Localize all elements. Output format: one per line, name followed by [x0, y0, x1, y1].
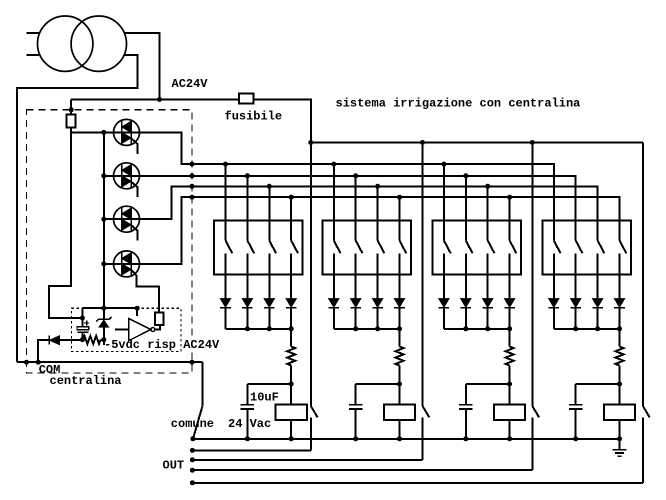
- capacitor C1 top plate: [77, 327, 89, 330]
- wire - block 4 diode 3 lower lead: [597, 308, 599, 329]
- node - psu rail end: [135, 306, 140, 311]
- node - zener bottom junction: [101, 337, 106, 342]
- wire - bus to triac U3 input: [104, 218, 114, 220]
- wire - block 4 cap lower lead: [575, 409, 577, 439]
- wire - block 4 diode 1 lower lead: [553, 308, 555, 329]
- diode D1 (to COM): [38, 340, 49, 362]
- wire - block 4 column 3 upper: [597, 186, 599, 240]
- wire - block 1 cap lower lead: [246, 409, 248, 439]
- resistor R2 (psu): [83, 336, 101, 344]
- wire - block 1 column 1 to diode: [225, 253, 227, 298]
- wire - block 3 column 4 to diode: [509, 253, 511, 298]
- diode D10 (block 3): [439, 299, 450, 308]
- svg-text:24 Vac: 24 Vac: [228, 417, 271, 431]
- transformer TR1 primary winding: [37, 16, 92, 71]
- svg-text:OUT: OUT: [163, 459, 185, 473]
- node - COM terminal left (centralina box): [24, 360, 29, 365]
- wire - block 2 diode 2 lower lead: [355, 308, 357, 329]
- wire - cap bottom lead: [81, 332, 83, 339]
- wire - block 2 relay top link: [356, 383, 400, 385]
- wire - OUT line 1: [192, 449, 310, 451]
- wire - block 4 relay lower lead: [619, 420, 621, 439]
- diode D6 (block 2): [329, 299, 340, 308]
- wire - block 1 column 1 upper: [225, 164, 227, 240]
- wire - block 4 column 2 upper: [575, 176, 577, 241]
- zener diode DZ1: [103, 308, 105, 319]
- node - block 3 relay on comune line: [507, 436, 512, 441]
- node - COM terminal right (centralina box): [190, 360, 195, 365]
- node - block 2 diode common junction 2: [375, 326, 380, 331]
- wire - block 2 diode 4 lower lead: [399, 308, 401, 329]
- wire - diode to resistor: [60, 339, 83, 341]
- svg-text:comune: comune: [171, 417, 214, 431]
- diode D2 (block 1): [220, 299, 231, 308]
- node - block 4 diode common junction 3: [617, 326, 622, 331]
- node - comune bus tap 2: [420, 140, 425, 145]
- diode D11 (block 3): [461, 299, 472, 308]
- node - bus tap U2: [101, 173, 106, 178]
- wire - block 2 cap lower lead: [355, 409, 357, 439]
- capacitor C3 plates: [349, 404, 363, 406]
- wire - triac U2 output to bus row 2: [140, 176, 576, 241]
- transformer TR1 secondary winding: [71, 16, 126, 71]
- wire - block 3 diode common line: [444, 328, 510, 330]
- wire - block 2 column 4 to diode: [399, 253, 401, 298]
- node - bus row 3 tap block 1: [267, 184, 272, 189]
- wire - OUT line 2: [192, 459, 422, 461]
- node - block 1 cap on comune line: [245, 436, 250, 441]
- switch S12 blade: [510, 241, 517, 254]
- wire - block 3 cap lower lead: [465, 409, 467, 439]
- node - bus row 1 terminal on centralina box: [190, 162, 195, 167]
- svg-text:COM: COM: [39, 363, 61, 377]
- node - bus tap U3: [101, 217, 106, 222]
- node - bus row 1 tap block 3: [441, 162, 446, 167]
- wire - triac U3 output to bus row 3: [140, 186, 598, 240]
- triac U1 body: [114, 119, 140, 145]
- node - bus row 4 tap block 2: [397, 195, 402, 200]
- node - block 2 relay top junction: [397, 382, 402, 387]
- node - bus row 2 tap block 1: [245, 173, 250, 178]
- node - block 4 diode common junction 1: [573, 326, 578, 331]
- wire - transformer primary lead top: [27, 32, 40, 34]
- node - bus tap U1: [101, 130, 106, 135]
- wire - inverter supply stub: [136, 308, 138, 316]
- relay coil K2 (solenoid valve): [399, 384, 401, 404]
- valve block 2 enclosure: [322, 220, 411, 274]
- node - block 1 diode common junction 3: [289, 326, 294, 331]
- wire - block 3 column 3 to diode: [487, 253, 489, 298]
- node - bus row 3 terminal on centralina box: [190, 184, 195, 189]
- wire - block 4 column 3 to diode: [597, 253, 599, 298]
- node - bus row 4 terminal on centralina box: [190, 195, 195, 200]
- capacitor C5 plates: [569, 404, 583, 406]
- triac U2 body: [114, 163, 140, 189]
- wire - block 3 cap upper lead: [465, 384, 467, 405]
- centralina enclosure (dashed box): [27, 110, 193, 373]
- switch S13 blade: [554, 241, 561, 254]
- node - comune bus tap 1: [308, 140, 313, 145]
- wire - block 1 column 4 to diode: [290, 253, 292, 298]
- zone switch SZ4 blade: [643, 406, 650, 417]
- wire - transformer primary lead bottom: [27, 54, 39, 56]
- node - OUT terminal 2: [190, 457, 195, 462]
- wire - comune drop to zone switch 3: [531, 143, 533, 407]
- switch S10 blade: [466, 241, 473, 254]
- wire - triac U1 gate stub: [132, 139, 138, 154]
- node - block 4 relay top junction: [617, 382, 622, 387]
- wire - block 1 diode 2 lower lead: [246, 308, 248, 329]
- diode D7 (block 2): [350, 299, 361, 308]
- wire - block 1 diode 4 lower lead: [290, 308, 292, 329]
- inverter U5 (gate driver): [129, 318, 151, 340]
- triac U3 body: [114, 206, 140, 232]
- wire - COM to main comune switch: [201, 362, 203, 406]
- wire - block 1 column 2 upper: [246, 176, 248, 241]
- node - block 2 cap on comune line: [353, 436, 358, 441]
- wire - triac U3 gate stub: [132, 226, 138, 241]
- fuse F1: [239, 93, 254, 103]
- switch S4 blade: [291, 241, 298, 254]
- wire - block 2 column 4 upper: [399, 197, 401, 240]
- diode D17 (block 4): [614, 299, 625, 308]
- wire - triac U4 output to bus row 4: [140, 197, 620, 264]
- wire - block 3 column 2 to diode: [465, 253, 467, 298]
- inverter U5 input stub: [115, 329, 129, 331]
- switch S15 blade: [598, 241, 605, 254]
- switch S1 blade: [226, 241, 233, 254]
- node - bus row 2 terminal on centralina box: [190, 173, 195, 178]
- wire - block 2 relay lower lead: [399, 420, 401, 439]
- wire - block 1 diode 3 lower lead: [268, 308, 270, 329]
- wire - block 1 relay lower lead: [290, 420, 292, 439]
- relay coil K3 (solenoid valve): [509, 384, 511, 404]
- wire - inverter output to gate resistor: [155, 325, 160, 330]
- diode D4 (block 1): [264, 299, 275, 308]
- wire - block 3 column 4 upper: [509, 197, 511, 240]
- wire - block 4 diode common line: [554, 328, 620, 330]
- node - block 4 relay on comune line: [617, 436, 622, 441]
- wire - block 3 diode 4 lower lead: [509, 308, 511, 329]
- wire - block 2 column 1 to diode: [333, 253, 335, 298]
- switch S14 blade: [576, 241, 583, 254]
- valve block 3 enclosure: [433, 220, 522, 274]
- node - COM diode branch junction: [36, 360, 41, 365]
- node - bus row 1 tap block 2: [331, 162, 336, 167]
- node - bus row 3 tap block 2: [375, 184, 380, 189]
- node - block 1 diode common junction 1: [245, 326, 250, 331]
- wire - block 3 column 1 upper: [443, 164, 445, 240]
- node - OUT terminal 3: [190, 468, 195, 473]
- wire - block 4 relay top link: [576, 383, 620, 385]
- diode D12 (block 3): [482, 299, 493, 308]
- node - block 2 relay on comune line: [397, 436, 402, 441]
- wire - triac U2 gate stub: [132, 182, 138, 197]
- node - bus row 4 tap block 1: [289, 195, 294, 200]
- wire - block 1 diode 1 lower lead: [225, 308, 227, 329]
- node - block 1 relay top junction: [289, 382, 294, 387]
- node - block 4 diode common junction 2: [595, 326, 600, 331]
- wire - comune 24Vac line: [193, 438, 620, 440]
- svg-text:-5vdc risp AC24V: -5vdc risp AC24V: [104, 338, 220, 352]
- wire - block 2 diode 1 lower lead: [333, 308, 335, 329]
- wire - triac U4 gate to inverter resistor: [132, 270, 160, 312]
- resistor R5 (block 2): [399, 329, 401, 347]
- valve block 1 enclosure: [214, 220, 303, 274]
- switch S16 blade: [620, 241, 627, 254]
- node - block 4 cap on comune line: [573, 436, 578, 441]
- zone switch SZ3 blade: [532, 406, 539, 417]
- node - OUT terminal 1: [190, 448, 195, 453]
- diode D9 (block 2): [394, 299, 405, 308]
- resistor R3 (gate): [155, 312, 164, 325]
- wire - block 3 column 2 upper: [465, 176, 467, 241]
- node - comune bus tap 3: [530, 140, 535, 145]
- wire - block 1 column 4 upper: [290, 197, 292, 240]
- switch S9 blade: [444, 241, 451, 254]
- wire - block 4 column 1 upper: [553, 164, 555, 240]
- wire - comune drop to zone switch 4: [642, 143, 644, 407]
- wire - block 3 diode 2 lower lead: [465, 308, 467, 329]
- node - psu rail tap (zener): [101, 306, 106, 311]
- node - block 3 diode common junction 3: [507, 326, 512, 331]
- wire - OUT line 3: [192, 469, 532, 471]
- node - bus row 2 tap block 3: [463, 173, 468, 178]
- wire - COM rail: [17, 361, 203, 363]
- node - OUT terminal 4: [190, 480, 195, 485]
- svg-text:AC24V: AC24V: [172, 77, 209, 91]
- inverter U5 output bubble: [151, 328, 155, 332]
- wire - block 1 column 2 to diode: [246, 253, 248, 298]
- wire - comune distribution bus: [311, 142, 643, 144]
- gate bus wire (triac inputs): [103, 132, 105, 308]
- wire - block 3 diode 1 lower lead: [443, 308, 445, 329]
- resistor R7 (block 4): [619, 329, 621, 347]
- capacitor C1 bottom plate: [77, 331, 88, 333]
- wire - zone switch 4 to OUT line: [642, 417, 644, 482]
- wire - block 1 relay top link: [247, 383, 291, 385]
- node - block 1 diode common junction 2: [267, 326, 272, 331]
- wire - block 2 column 1 upper: [333, 164, 335, 240]
- wire - block 3 diode 3 lower lead: [487, 308, 489, 329]
- wire - resistor to zener node: [101, 339, 104, 341]
- wire - comune drop to zone switch 2: [422, 143, 424, 407]
- diode D5 (block 1): [286, 299, 297, 308]
- node - bus row 3 tap block 3: [485, 184, 490, 189]
- diode D14 (block 4): [549, 299, 560, 308]
- capacitor C2 plates: [241, 404, 255, 406]
- wire - psu top rail: [82, 307, 137, 309]
- wire - triac U1 output to bus row 1: [140, 132, 554, 240]
- zone switch SZ2 blade: [423, 406, 430, 417]
- capacitor C4 plates: [459, 404, 473, 406]
- wire - feed drop into centralina resistor: [70, 100, 72, 115]
- node - block 3 diode common junction 1: [463, 326, 468, 331]
- ground symbol: [619, 439, 621, 449]
- wire - block 2 column 2 to diode: [355, 253, 357, 298]
- node - junction transformer/AC24V feed: [157, 97, 162, 102]
- node - block 2 diode common junction 1: [353, 326, 358, 331]
- wire - transformer secondary top to AC24V feed: [124, 33, 159, 99]
- wire - block 4 column 4 to diode: [619, 253, 621, 298]
- diode D15 (block 4): [570, 299, 581, 308]
- node - cap bottom junction: [80, 337, 85, 342]
- node - bus row 1 tap block 1: [223, 162, 228, 167]
- wire - block 4 cap upper lead: [575, 384, 577, 405]
- node - cap/branch junction: [80, 316, 85, 321]
- switch S5 blade: [334, 241, 341, 254]
- wire - bus to triac U4 input: [104, 263, 114, 265]
- wire - OUT line 4: [192, 482, 643, 484]
- wire - comune drop to zone switch 1: [310, 143, 312, 407]
- wire - block 4 diode 2 lower lead: [575, 308, 577, 329]
- wire - block 2 cap upper lead: [355, 384, 357, 405]
- resistor R4 (block 1): [290, 329, 292, 347]
- relay coil K1 (solenoid valve): [290, 384, 292, 404]
- wire - block 2 column 2 upper: [355, 176, 357, 241]
- node - block 2 diode common junction 3: [397, 326, 402, 331]
- wire - block 1 cap upper lead: [246, 384, 248, 405]
- diode D3 (block 1): [242, 299, 253, 308]
- wire - block 1 column 3 upper: [268, 186, 270, 240]
- node - bus row 2 tap block 2: [353, 173, 358, 178]
- wire - block 3 column 1 to diode: [443, 253, 445, 298]
- switch S8 blade: [400, 241, 407, 254]
- svg-text:fusibile: fusibile: [225, 110, 283, 124]
- wire - block 1 diode common line: [226, 328, 292, 330]
- wire - block 4 column 4 upper: [619, 197, 621, 240]
- node - block 3 diode common junction 2: [485, 326, 490, 331]
- capacitor C1 (electrolytic) plus sign: [84, 322, 89, 324]
- wire - zone switch 2 to OUT line: [422, 417, 424, 459]
- triac U4 body: [114, 251, 140, 277]
- wire - block 3 relay top link: [466, 383, 510, 385]
- node - feed terminal on centralina box: [69, 107, 74, 112]
- resistor R1 (series dropper): [66, 114, 75, 127]
- wire - block 2 diode 3 lower lead: [377, 308, 379, 329]
- diode D16 (block 4): [592, 299, 603, 308]
- wire - R1 node to triac U1 input: [71, 131, 113, 133]
- node - block 3 relay top junction: [507, 382, 512, 387]
- wire - block 3 column 3 upper: [487, 186, 489, 240]
- wire - block 3 relay lower lead: [509, 420, 511, 439]
- switch S7 blade: [378, 241, 385, 254]
- wire - block 2 diode common line: [334, 328, 400, 330]
- wire - cap top lead: [81, 308, 83, 326]
- switch S3 blade: [269, 241, 276, 254]
- wire - zone switch 3 to OUT line: [531, 417, 533, 470]
- main comune switch blade: [193, 406, 203, 439]
- switch S11 blade: [488, 241, 495, 254]
- diode D13 (block 3): [504, 299, 515, 308]
- wire - block 4 column 2 to diode: [575, 253, 577, 298]
- wire - block 4 diode 4 lower lead: [619, 308, 621, 329]
- wire - block 2 column 3 to diode: [377, 253, 379, 298]
- node - bus tap U4: [101, 261, 106, 266]
- wire - block 4 column 1 to diode: [553, 253, 555, 298]
- power-supply sub-circuit (dotted box): [72, 308, 181, 351]
- zone switch SZ1 blade: [311, 406, 318, 417]
- wire - block 2 column 3 upper: [377, 186, 379, 240]
- wire - block 1 column 3 to diode: [268, 253, 270, 298]
- node - comune line start: [190, 436, 195, 441]
- wire - fuse to comune bus corner: [254, 100, 311, 143]
- switch S2 blade: [247, 241, 254, 254]
- resistor R6 (block 3): [509, 329, 511, 347]
- node - bus row 4 tap block 3: [507, 195, 512, 200]
- diode D8 (block 2): [372, 299, 383, 308]
- relay coil K4 (solenoid valve): [619, 384, 621, 404]
- switch S6 blade: [356, 241, 363, 254]
- svg-text:sistema irrigazione con centra: sistema irrigazione con centralina: [336, 97, 581, 111]
- wire - transformer secondary bottom to left rail: [17, 55, 138, 362]
- node - block 3 cap on comune line: [463, 436, 468, 441]
- wire - R1 down to psu branch: [49, 128, 83, 318]
- node - block 1 relay on comune line: [289, 436, 294, 441]
- wire - bus to triac U2 input: [104, 175, 114, 177]
- valve block 4 enclosure: [542, 220, 631, 274]
- wire - zone switch 1 to OUT line: [310, 417, 312, 450]
- svg-text:10uF: 10uF: [250, 391, 279, 405]
- wire - AC24V feed horizontal: [71, 99, 239, 101]
